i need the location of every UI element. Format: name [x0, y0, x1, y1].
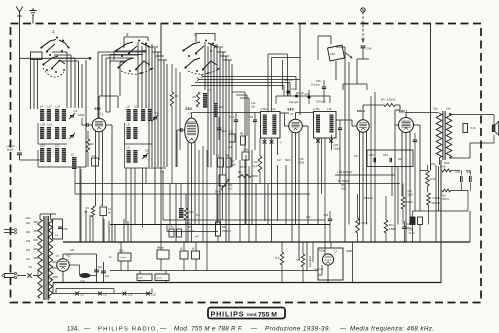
resistor R6 box [216, 194, 232, 242]
coil L3a IF [316, 115, 320, 133]
coil L17 [47, 105, 52, 122]
svg-text:C10: C10 [92, 155, 97, 158]
svg-text:Y: Y [280, 141, 282, 145]
svg-text:C45: C45 [316, 80, 321, 83]
wire section1-2 links [110, 51, 147, 64]
svg-text:μμF: μμF [232, 164, 237, 167]
svg-text:4v: 4v [109, 256, 112, 259]
svg-text:160: 160 [26, 231, 31, 234]
transformer top lead [40, 214, 56, 219]
coil L19a [62, 127, 66, 139]
wire secondary loop [56, 289, 114, 294]
capacitor C30 [413, 133, 418, 165]
antenna [16, 7, 23, 18]
wire antenna lead-in [19, 17, 21, 151]
wire long vertical x375 [371, 92, 375, 242]
IFT1 labels [261, 107, 276, 111]
svg-text:μμF: μμF [195, 236, 200, 238]
label L4 AZ [70, 249, 75, 252]
wire vertical drop 21 [255, 184, 257, 243]
wire vertical drop 3 [89, 215, 91, 242]
switch S1c lower arms [185, 58, 219, 74]
svg-text:C8: C8 [145, 149, 149, 153]
wire EF9 leads [292, 126, 308, 260]
svg-text:C28: C28 [369, 154, 374, 157]
svg-text:C: C [101, 204, 103, 207]
potentiometer R13 cluster [215, 167, 233, 220]
capacitor C46 [361, 46, 372, 59]
coil L8b [133, 127, 137, 139]
ground terminal [30, 8, 37, 24]
wire section3 top loop [196, 34, 215, 43]
coil L7 oscillator [203, 88, 211, 108]
wire vertical drop 34 [419, 171, 421, 212]
svg-text:EF9: EF9 [288, 108, 294, 112]
wire EF6 risers [98, 52, 146, 118]
wire vertical drop 9 [125, 168, 127, 225]
svg-text:C15: C15 [229, 131, 234, 134]
capacitor C1 antenna [6, 145, 22, 155]
capacitor C17 labels [277, 159, 291, 162]
svg-text:C.Mc: C.Mc [440, 166, 447, 169]
svg-text:L17: L17 [47, 105, 52, 109]
wire coil bottoms 2 [125, 123, 167, 168]
wire EBL1 leads [402, 125, 420, 242]
svg-text:1MΩ: 1MΩ [341, 188, 346, 191]
label C1b L2b [251, 102, 256, 109]
resistor R4 12M [363, 98, 400, 107]
svg-text:L8: L8 [127, 123, 131, 127]
wire vertical drop 20 [251, 150, 253, 225]
resistor R8 em1 [276, 242, 284, 283]
wire vertical drop 18 [239, 160, 241, 242]
coil L19 [47, 123, 53, 140]
wire vertical drop 10 [130, 168, 132, 242]
svg-text:L1: L1 [100, 112, 104, 116]
svg-text:C14: C14 [221, 129, 226, 133]
capacitor C43 electrolytic [94, 260, 103, 283]
wire HT bus [63, 211, 470, 242]
filter choke L10 [69, 265, 96, 283]
wire screen bus [276, 92, 330, 104]
svg-text:C21: C21 [291, 88, 296, 91]
wire mid bus 2 [110, 224, 330, 226]
tube EBC3 [357, 109, 369, 132]
switch S1c upper arms [183, 42, 217, 54]
svg-text:R1: R1 [86, 206, 90, 210]
svg-text:S1a: S1a [433, 107, 438, 111]
svg-text:R11: R11 [398, 158, 403, 161]
wire vertical drop 30 [370, 225, 372, 243]
resistor R12 [356, 194, 368, 242]
capacitor C42 box [180, 242, 188, 271]
wire EBC3 leads [360, 105, 367, 242]
gramophone jack [361, 8, 365, 12]
wire transformer bottom [431, 158, 450, 283]
svg-text:A22: A22 [70, 249, 75, 252]
label C22 [289, 101, 299, 104]
svg-text:c.Md 20000pF: c.Md 20000pF [337, 171, 353, 174]
wire EF6 cathode leads [96, 131, 103, 206]
label 25000 [364, 198, 373, 200]
svg-text:Produzione 1938-39.: Produzione 1938-39. [265, 326, 331, 333]
band switch wafer 1 label [52, 29, 55, 34]
wire EBL1 anode [406, 113, 439, 118]
svg-text:220: 220 [26, 222, 31, 225]
svg-text:Media frequenza: 468 kHz.: Media frequenza: 468 kHz. [350, 326, 434, 333]
svg-text:—: — [251, 326, 258, 333]
label 4 volt [109, 256, 112, 259]
wire section1 left risers [31, 60, 38, 110]
wire vertical drop 26 [306, 242, 308, 271]
capacitor C50 [58, 227, 68, 231]
wire AZ1 leads [50, 262, 64, 283]
pilot lamp L10b [123, 292, 133, 297]
PHILIPS model label box [208, 308, 285, 319]
svg-text:C13: C13 [228, 188, 233, 191]
output transformer S4 core [443, 111, 445, 160]
power transformer secondary [48, 219, 52, 298]
capacitor C44 electrolytic [101, 262, 110, 283]
svg-text:C27: C27 [354, 155, 359, 158]
coil L20 [40, 144, 45, 163]
rectifier AZ1 [56, 254, 71, 272]
svg-text:755 M: 755 M [258, 312, 277, 319]
coil L3b IF [330, 115, 334, 133]
coil L8 [127, 123, 131, 140]
svg-text:C4: C4 [74, 109, 78, 113]
output transformer S4 primary [436, 113, 442, 158]
label C18 [299, 158, 305, 165]
IFT2 labels [314, 107, 332, 111]
svg-text:C33: C33 [324, 214, 329, 217]
svg-text:100pF: 100pF [334, 148, 341, 151]
power transformer core [44, 216, 49, 300]
wire vertical drop 27 [321, 160, 323, 194]
caption text [67, 326, 434, 333]
output transformer label [433, 107, 451, 111]
tube EM1 [319, 250, 338, 266]
svg-text:L10: L10 [128, 293, 133, 297]
coil L4 [40, 105, 44, 122]
feedback network box [367, 150, 413, 167]
svg-text:5.1b: 5.1b [471, 126, 477, 130]
svg-text:C50: C50 [63, 228, 68, 231]
capacitor C9 cathode [100, 204, 112, 242]
wire vertical drop 23 [267, 184, 269, 225]
wire gramophone dashed [362, 12, 365, 42]
wire EF6 screen [106, 125, 112, 242]
mains aerial terminals [4, 229, 17, 234]
svg-text:R·b: R·b [196, 214, 201, 217]
coil L2b IF [272, 115, 276, 135]
resistor R15 [427, 193, 441, 225]
speaker field coil box [463, 124, 476, 133]
svg-text:L9: L9 [127, 146, 131, 150]
svg-text:8μF: 8μF [98, 266, 103, 269]
svg-text:L5a: L5a [446, 107, 451, 111]
wire vertical drop 13 [145, 168, 147, 184]
svg-text:C22 μμF: C22 μμF [289, 101, 299, 104]
svg-text:C46: C46 [367, 47, 372, 51]
wire vertical drop 1 [79, 167, 81, 242]
switch S1a upper arms [41, 40, 70, 53]
wire vertical drop 32 [397, 167, 399, 225]
band switch wafer 3 label [194, 32, 197, 37]
label R5 50 [240, 166, 247, 169]
IF transformer S2 frame [261, 112, 281, 139]
svg-text:1μF: 1μF [253, 165, 258, 168]
wire coil bottoms 1 [38, 123, 86, 167]
label C19 [306, 216, 311, 219]
svg-text:1: 1 [52, 29, 55, 34]
svg-text:Commut: Commut [315, 268, 324, 271]
wire long vertical x345 [336, 47, 349, 242]
wire antenna to coils [20, 57, 92, 160]
label C32 [408, 190, 414, 197]
svg-text:—: — [160, 326, 167, 333]
wire vertical drop 29 [366, 167, 368, 225]
capacitor C14 padder [217, 117, 227, 140]
svg-text:L3a: L3a [327, 107, 332, 111]
wire vertical drop 15 [175, 184, 177, 243]
capacitor C15b cluster [228, 131, 249, 161]
wire vertical drop 11 [134, 168, 136, 225]
svg-text:PHILIPS RADIO.: PHILIPS RADIO. [98, 327, 159, 333]
svg-text:5000: 5000 [215, 192, 221, 194]
wire vertical drop 14 [169, 184, 171, 225]
wire EK2 anode top [192, 113, 261, 119]
capacitor C11 grid [177, 128, 185, 167]
svg-text:L16: L16 [56, 105, 61, 109]
coil L10 oscillator [214, 103, 225, 117]
capacitor C36 electrolytic [409, 211, 439, 242]
svg-text:50μF: 50μF [408, 194, 414, 197]
resistor R17 [401, 184, 413, 225]
svg-text:—: — [84, 326, 91, 333]
capacitor C26 det [334, 120, 343, 160]
svg-text:5000μF: 5000μF [284, 79, 293, 82]
svg-text:μF: μF [192, 249, 195, 251]
svg-text:S1: S1 [29, 265, 33, 269]
svg-text:R2: R2 [91, 143, 95, 146]
svg-text:L10: L10 [80, 279, 85, 283]
magic eye EM1 box [318, 248, 353, 280]
wire vertical drop 28 [339, 160, 341, 184]
wire vertical drop 2 [85, 210, 87, 242]
svg-text:R9: R9 [175, 94, 179, 98]
coil L18a [55, 127, 59, 139]
wire EF9 anode [296, 113, 314, 120]
wire oscillator bundle [232, 92, 249, 242]
wire section2 risers [138, 42, 167, 242]
tube EK2 octode [185, 107, 199, 143]
coil L23 [62, 148, 66, 162]
svg-text:8μF: 8μF [105, 275, 110, 278]
svg-text:L7: L7 [335, 251, 338, 254]
trimmer C5 [69, 133, 75, 139]
svg-text:2: 2 [126, 32, 129, 37]
resistor R5b [253, 138, 262, 184]
svg-text:110: 110 [26, 258, 30, 261]
tube EF6 [92, 107, 106, 132]
svg-text:L6: L6 [127, 105, 131, 109]
svg-text:·C: ·C [117, 242, 120, 245]
resistor R9 AVC [170, 64, 178, 184]
svg-text:R5: R5 [188, 227, 192, 229]
wire vertical drop 25 [285, 165, 287, 225]
svg-text:R10a: R10a [319, 250, 325, 253]
svg-text:PHILIPS: PHILIPS [211, 309, 245, 318]
svg-text:C.Ma: C.Ma [261, 107, 268, 111]
wire vertical drop 6 [114, 225, 116, 243]
label C27 [354, 155, 359, 158]
svg-text:5000: 5000 [285, 160, 291, 162]
trimmer C8 [142, 149, 149, 160]
wire vertical drop 22 [264, 160, 266, 221]
svg-text:3: 3 [194, 32, 197, 37]
svg-text:L2b: L2b [251, 106, 256, 109]
wire mid bus 1 [163, 170, 325, 220]
capacitor C42a boxes [168, 227, 200, 239]
wire vertical drop 19 [245, 155, 247, 225]
wire section3 risers [205, 42, 232, 242]
svg-text:L7: L7 [208, 88, 212, 92]
svg-text:Maastr: Maastr [157, 247, 164, 250]
svg-text:L6: L6 [56, 254, 59, 258]
wire section2 top loop [120, 37, 148, 96]
svg-text:134.: 134. [67, 326, 79, 333]
wire EM1 leads [315, 242, 332, 283]
mains plug [2, 272, 17, 278]
svg-text:L19: L19 [48, 123, 53, 127]
switch S1b upper dots [121, 40, 147, 57]
wire vertical drop 5 [108, 221, 110, 242]
IFT2 tuning arrows [316, 139, 333, 143]
wire EK2 cathode leads [188, 142, 195, 242]
capacitor C45 [311, 80, 326, 103]
svg-text:L2: L2 [55, 233, 58, 237]
svg-text:+C37: +C37 [304, 93, 310, 96]
output transformer S4 secondary [446, 113, 452, 158]
coil L9 [127, 146, 131, 164]
wire gramophone link [343, 59, 369, 90]
coil L2a IF [263, 115, 267, 135]
wire vertical drop 16 [187, 184, 189, 225]
IFT1 tuning arrows [263, 140, 282, 145]
wire em1 drop [309, 242, 353, 283]
wire dial drop x161 [160, 24, 162, 57]
switch S1a dashed arc [43, 68, 64, 77]
capacitor C33 [324, 211, 333, 242]
switch S1b lower arms [118, 58, 152, 74]
svg-text:μF: μF [108, 212, 111, 215]
svg-text:L5: L5 [134, 105, 138, 109]
capacitor C41 box [157, 242, 169, 271]
capacitor C21 [284, 79, 296, 96]
capacitor C10 [92, 155, 99, 166]
svg-text:L10: L10 [152, 293, 157, 297]
speaker [492, 122, 498, 136]
svg-text:C19: C19 [306, 216, 311, 219]
svg-text:EF6: EF6 [95, 107, 101, 111]
svg-text:0.5MΩ: 0.5MΩ [389, 229, 396, 231]
wire vertical drop 33 [414, 165, 416, 211]
wire vertical drop 17 [191, 194, 193, 242]
svg-text:C.Mb: C.Mb [314, 107, 321, 111]
capacitor C2a [402, 221, 412, 242]
wire top nested returns [191, 75, 300, 97]
wire mixer risers [176, 68, 207, 271]
coil L2d [148, 109, 152, 121]
wire vertical drop 12 [142, 168, 144, 228]
svg-text:R4 · 12M Ω: R4 · 12M Ω [381, 98, 395, 102]
switch S1a upper dots [49, 37, 64, 56]
label R10 [341, 184, 346, 191]
svg-text:C·a: C·a [160, 171, 165, 174]
svg-text:1μF: 1μF [228, 146, 233, 149]
svg-text:C13: C13 [230, 115, 235, 119]
capacitor C43 box [192, 242, 200, 271]
wire detector bus [75, 169, 310, 242]
svg-text:C29: C29 [383, 154, 388, 157]
svg-text:L4: L4 [40, 105, 44, 109]
capacitor C38 [466, 171, 471, 191]
svg-text:Comm: Comm [156, 278, 163, 280]
label R7 [196, 214, 201, 217]
capacitor C40 box [118, 242, 131, 271]
wire EBL1 grid [395, 105, 400, 242]
wire EBC3 grid [344, 120, 357, 126]
wire section1 risers [52, 52, 86, 167]
pilot lamp L11 [146, 292, 156, 297]
coil L5 [133, 105, 137, 122]
svg-text:L5: L5 [290, 112, 294, 116]
resistor R1 cathode [85, 206, 95, 242]
choke L8b [184, 194, 191, 242]
coil L16 [55, 105, 61, 122]
switch S1b dashed arc [121, 67, 155, 74]
wire aux bus [110, 270, 318, 272]
resistor R5a [238, 170, 258, 178]
resistor R14 [426, 165, 436, 192]
svg-text:C18: C18 [299, 158, 304, 161]
capacitor C39 [304, 90, 326, 104]
svg-text:R6: R6 [222, 225, 226, 229]
capacitor C15 cluster [216, 155, 236, 168]
wire lamp line [53, 283, 152, 294]
coil L22 [55, 144, 60, 163]
resistor R9 em1 [297, 242, 305, 283]
svg-text:C15: C15 [216, 155, 221, 158]
svg-text:4/93: 4/93 [138, 278, 143, 280]
tube EBL1 [399, 110, 414, 133]
label 2C [160, 171, 165, 174]
coil L18 [40, 123, 45, 140]
wire vertical drop 7 [123, 219, 125, 242]
pilot lamp L8 [75, 292, 84, 297]
wire vertical drop 24 [277, 165, 279, 221]
band switch wafer 2 label [126, 32, 129, 37]
tone box B [155, 271, 169, 283]
svg-text:Mod. 755 M e 788 R F.: Mod. 755 M e 788 R F. [174, 326, 243, 333]
svg-text:L5: L5 [71, 153, 74, 157]
svg-text:EK2: EK2 [186, 107, 193, 111]
wire C.Md feed [335, 171, 395, 175]
coil L21 [47, 148, 51, 162]
svg-text:R14: R14 [431, 177, 436, 181]
coil L9b [133, 150, 137, 163]
